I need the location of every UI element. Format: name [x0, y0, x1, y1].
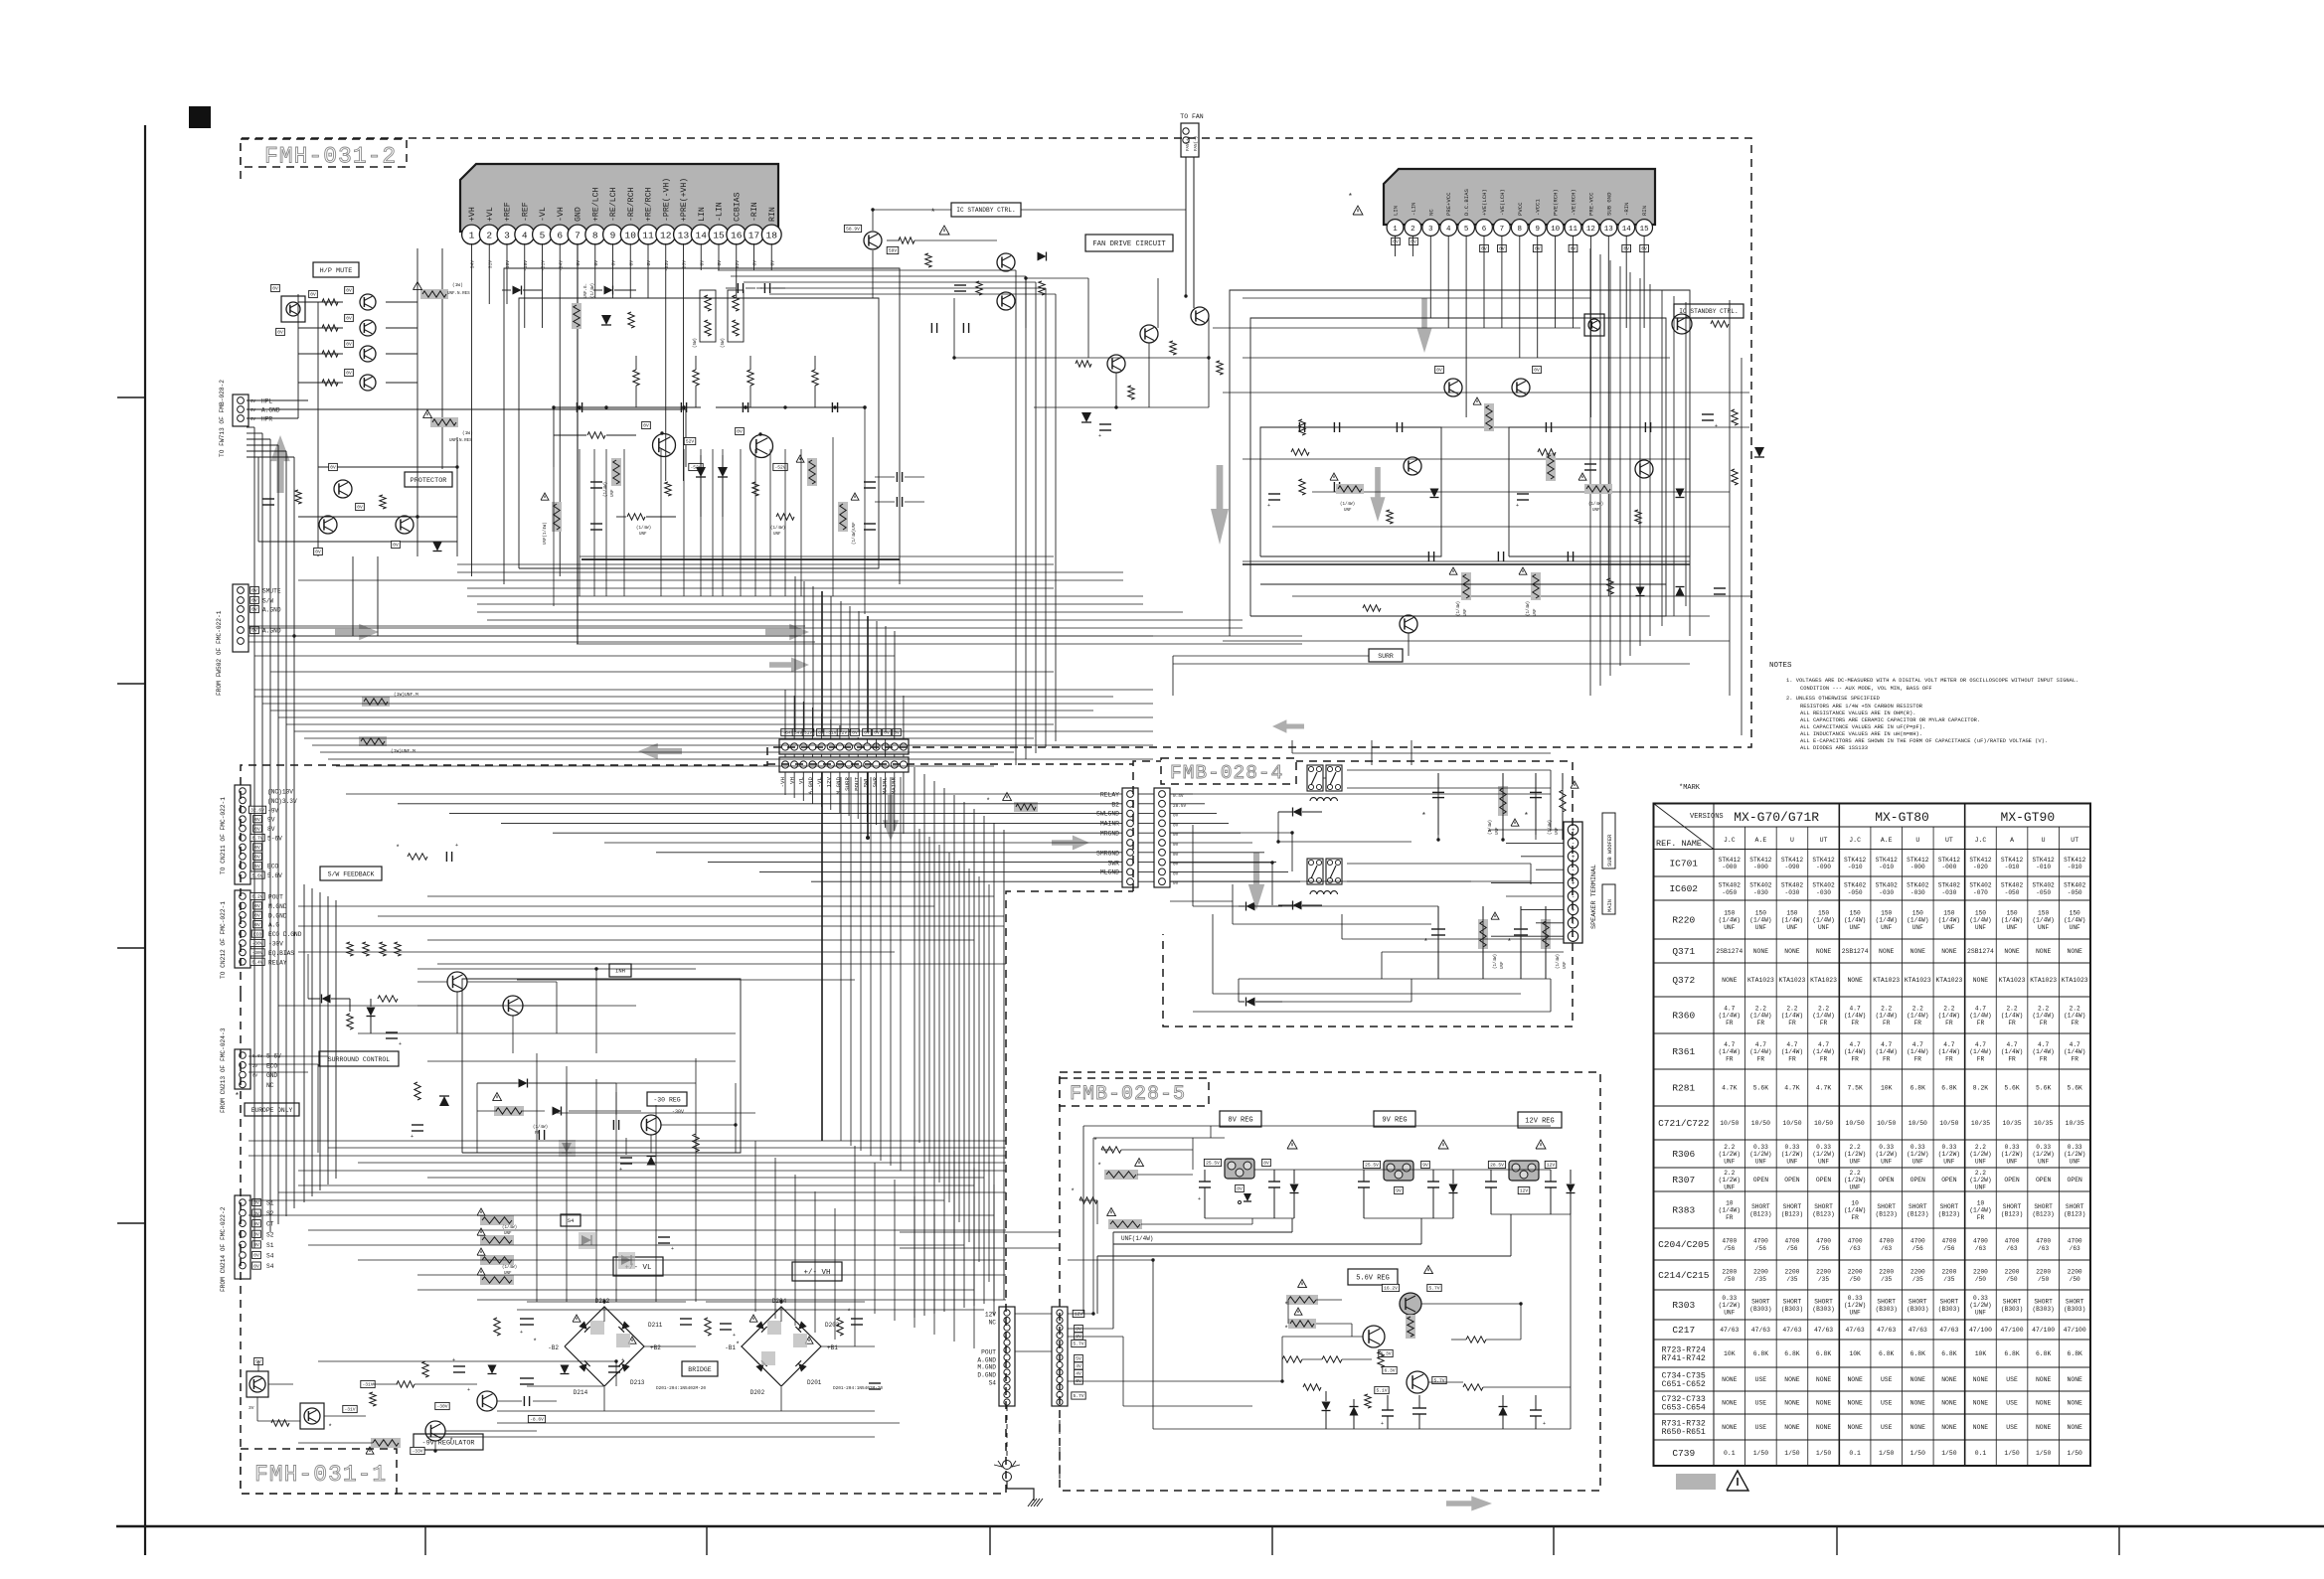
wire fan drop — [1185, 157, 1187, 296]
svg-text:OPEN: OPEN — [2004, 1177, 2020, 1184]
svg-text:-010: -010 — [1848, 864, 1863, 870]
svg-text:+: + — [621, 1357, 624, 1363]
svg-text:/50: /50 — [2070, 1276, 2080, 1283]
pin 2 (+VL) — [479, 225, 499, 244]
right sub-amp LCH loop — [1260, 427, 1441, 556]
svg-text:(1/4W): (1/4W) — [1781, 1048, 1803, 1055]
svg-text:UNF: UNF — [1975, 1309, 1986, 1316]
svg-text:SHORT: SHORT — [1909, 1203, 1927, 1210]
pin 12 (-PRE(-VH)) — [656, 225, 676, 244]
svg-text:2200: 2200 — [1722, 1269, 1737, 1276]
svg-text:OPEN: OPEN — [1753, 1177, 1769, 1184]
svg-text:UNF: UNF — [1912, 1158, 1923, 1165]
svg-text:D211: D211 — [648, 1322, 663, 1329]
svg-text:FR: FR — [2071, 1020, 2078, 1026]
mute transistors Q751-Q754 — [360, 294, 376, 310]
svg-text:UNF.G.: UNF.G. — [584, 283, 588, 298]
svg-text:S2: S2 — [266, 1231, 274, 1238]
svg-text:16V: 16V — [505, 260, 511, 269]
svg-text:9V: 9V — [1422, 1163, 1428, 1169]
svg-text:NONE: NONE — [1941, 1376, 1957, 1383]
svg-text:KTA1023: KTA1023 — [1747, 977, 1774, 984]
svg-text:S4: S4 — [989, 1380, 997, 1387]
svg-text:(B303): (B303) — [1907, 1306, 1928, 1313]
svg-text:STK412: STK412 — [1781, 857, 1804, 864]
svg-text:(NC)10V: (NC)10V — [267, 789, 293, 796]
caps around 12V REG — [1485, 1181, 1497, 1183]
long verticals: strip area to FMH-031-1 — [840, 777, 842, 1141]
svg-text:-030: -030 — [1785, 889, 1800, 896]
svg-text:4.7K: 4.7K — [1784, 1085, 1800, 1092]
svg-text:MX-G70/G71R: MX-G70/G71R — [1734, 810, 1819, 825]
svg-text:4700: 4700 — [2068, 1238, 2082, 1245]
svg-text:*: * — [1421, 812, 1426, 821]
FMH-031-1 lower verticals — [754, 1141, 756, 1312]
svg-text:1. VOLTAGES ARE DC-MEASURED WI: 1. VOLTAGES ARE DC-MEASURED WITH A DIGIT… — [1786, 678, 2078, 684]
svg-text:IC701: IC701 — [1669, 858, 1698, 868]
svg-text:S1: S1 — [266, 1242, 274, 1249]
svg-text:0.33: 0.33 — [1816, 1144, 1831, 1151]
svg-text:MAINR: MAINR — [1100, 821, 1119, 828]
svg-text:+RE/RCH: +RE/RCH — [644, 188, 654, 222]
svg-text:*: * — [1284, 1302, 1288, 1310]
svg-text:SHORT: SHORT — [1814, 1299, 1833, 1306]
svg-text:SHORT: SHORT — [1751, 1299, 1770, 1306]
svg-text:A.GND: A.GND — [261, 407, 280, 414]
svg-text:TO CN212 OF FMC-022-1: TO CN212 OF FMC-022-1 — [220, 901, 227, 979]
svg-text:HPR: HPR — [261, 416, 272, 423]
svg-text:ALL CAPACITORS ARE CERAMIC CAP: ALL CAPACITORS ARE CERAMIC CAPACITOR OR … — [1800, 717, 1980, 723]
eco filter caps — [347, 942, 353, 956]
svg-text:FR: FR — [1914, 1055, 1922, 1062]
svg-text:R306: R306 — [1672, 1149, 1695, 1160]
svg-text:USE: USE — [2006, 1400, 2018, 1407]
resistor (1W)UNF.M lower — [359, 736, 387, 746]
cap C (FMB-028-4 upper) — [1432, 791, 1444, 793]
IC602 hybrid block (15-pin header) — [1384, 169, 1655, 225]
8V REG box — [1220, 1111, 1261, 1127]
svg-text:0V: 0V — [1173, 881, 1179, 886]
svg-text:-16V: -16V — [523, 260, 529, 271]
svg-text:M.GND: M.GND — [268, 903, 287, 910]
svg-text:-010: -010 — [2005, 864, 2020, 870]
svg-text:10/50: 10/50 — [1939, 1120, 1958, 1127]
svg-text:-RE/LCH: -RE/LCH — [608, 188, 618, 222]
wire SURR route — [1173, 655, 1369, 657]
svg-text:(1/4W): (1/4W) — [533, 1125, 548, 1130]
svg-text:10K: 10K — [1849, 1350, 1861, 1357]
svg-text:(1/4W): (1/4W) — [1876, 917, 1898, 924]
svg-text:UNF: UNF — [1912, 924, 1923, 931]
gray resistor (FMB-028-4 lower) — [1478, 919, 1488, 949]
svg-text:*: * — [1093, 1138, 1097, 1146]
svg-text:C214/C215: C214/C215 — [1658, 1270, 1710, 1281]
optocoupler — [281, 296, 305, 322]
svg-text:/56: /56 — [1786, 1245, 1797, 1252]
svg-text:0V: 0V — [252, 1075, 258, 1079]
svg-text:(B123): (B123) — [1876, 1210, 1898, 1217]
5.6V REG box — [1348, 1269, 1398, 1285]
svg-text:UNF: UNF — [1975, 924, 1986, 931]
svg-text:(1/4W): (1/4W) — [1969, 1013, 1991, 1020]
svg-text:2.2: 2.2 — [1786, 1005, 1797, 1012]
svg-text:*: * — [736, 1342, 740, 1349]
svg-text:14: 14 — [696, 231, 708, 241]
svg-text:UNF: UNF — [1534, 608, 1538, 616]
svg-text:FR: FR — [1726, 1055, 1734, 1062]
svg-text:4700: 4700 — [1785, 1238, 1800, 1245]
svg-text:0.33: 0.33 — [1941, 1144, 1956, 1151]
svg-text:IC STANDBY CTRL.: IC STANDBY CTRL. — [956, 207, 1015, 214]
svg-text:(1/4W): (1/4W) — [2064, 1048, 2085, 1055]
12V REG box — [1518, 1112, 1562, 1128]
diodes FMB-028-4 left — [1246, 902, 1255, 911]
svg-text:0V: 0V — [254, 912, 260, 918]
S/W feedback resistor — [408, 854, 427, 860]
svg-text:10: 10 — [625, 231, 637, 241]
svg-text:(1/2W): (1/2W) — [1907, 1151, 1928, 1158]
svg-text:POUT: POUT — [981, 1349, 996, 1356]
pin 5 (D.C.BIAS) — [1458, 220, 1475, 237]
svg-text:ALL CAPACITANCE VALUES ARE IN: ALL CAPACITANCE VALUES ARE IN uF(P=pF). — [1800, 724, 1925, 730]
svg-text:6.8K: 6.8K — [1879, 1350, 1895, 1357]
svg-text:1/50: 1/50 — [1879, 1450, 1895, 1457]
svg-text:4.7: 4.7 — [1881, 1041, 1892, 1048]
wire bus: strip risers to amp — [794, 576, 796, 732]
svg-text:-000: -000 — [1910, 864, 1925, 870]
BRIDGE box — [682, 1361, 718, 1376]
IC701 aux resistor networks under pins 8-11 — [700, 290, 716, 342]
svg-text:-010: -010 — [2036, 864, 2051, 870]
svg-text:UNF: UNF — [1975, 1158, 1986, 1165]
svg-text:/50: /50 — [2006, 1276, 2017, 1283]
svg-text:0V: 0V — [254, 817, 260, 823]
diodes under pins 2-5 — [513, 286, 522, 295]
svg-text:(1/2W): (1/2W) — [1781, 1151, 1803, 1158]
caps near pins 14-18 — [737, 283, 739, 293]
svg-text:(1/2W): (1/2W) — [1719, 1177, 1741, 1184]
svg-text:NONE: NONE — [1973, 1400, 1989, 1407]
svg-text:SHORT: SHORT — [2034, 1203, 2053, 1210]
svg-text:USE: USE — [1881, 1376, 1893, 1383]
svg-text:0V: 0V — [1173, 833, 1179, 838]
wire bus: IC602 pin drops — [1395, 236, 1397, 256]
svg-text:STK402: STK402 — [1907, 882, 1929, 889]
svg-text:150: 150 — [1818, 909, 1829, 916]
9V REG box — [1374, 1111, 1415, 1127]
svg-text:FR: FR — [1883, 1055, 1891, 1062]
svg-text:NONE: NONE — [1816, 948, 1832, 955]
svg-text:12: 12 — [660, 231, 672, 241]
pin 11 (-VE(RCH)) — [1565, 220, 1581, 237]
svg-text:6.8K: 6.8K — [1941, 1350, 1957, 1357]
amp bus dots — [578, 405, 581, 408]
svg-text:5.1V: 5.1V — [1376, 1388, 1387, 1394]
svg-text:2.2: 2.2 — [1724, 1170, 1735, 1177]
cap2 (FMB-028-4 lower) — [1514, 928, 1528, 930]
wire FMB-028-4 bottom routes — [1193, 1011, 1551, 1013]
svg-text:-LIN: -LIN — [1410, 203, 1416, 216]
svg-text:/56: /56 — [1755, 1245, 1766, 1252]
svg-text:RIN: RIN — [1641, 206, 1648, 216]
svg-text:47/63: 47/63 — [1751, 1327, 1770, 1334]
svg-text:1/50: 1/50 — [2068, 1450, 2083, 1457]
svg-text:5: 5 — [1464, 226, 1469, 234]
surround control area wires — [307, 954, 309, 999]
svg-text:1: 1 — [1393, 226, 1398, 234]
svg-text:UNF: UNF — [1464, 608, 1468, 616]
svg-text:0V: 0V — [250, 400, 256, 404]
svg-text:UNF: UNF — [1818, 924, 1829, 931]
svg-text:0V: 0V — [611, 260, 617, 266]
svg-text:SURR: SURR — [844, 776, 851, 790]
svg-text:47/63: 47/63 — [1720, 1327, 1739, 1334]
svg-text:SHORT: SHORT — [1877, 1203, 1896, 1210]
svg-text:2.2: 2.2 — [1881, 1005, 1892, 1012]
svg-text:2.2: 2.2 — [1912, 1005, 1923, 1012]
svg-text:(1/2W): (1/2W) — [1844, 1151, 1866, 1158]
svg-text:-RE/RCH: -RE/RCH — [626, 188, 636, 222]
amp diodes — [696, 467, 706, 477]
svg-text:R383: R383 — [1672, 1205, 1695, 1216]
svg-text:UNF: UNF — [1786, 1158, 1797, 1165]
svg-text:SURROUND CONTROL: SURROUND CONTROL — [328, 1056, 391, 1063]
svg-text:+: + — [1098, 433, 1101, 439]
svg-text:(1/2W): (1/2W) — [1844, 1177, 1866, 1184]
svg-text:-050: -050 — [1722, 889, 1737, 896]
svg-text:6.8K: 6.8K — [1816, 1350, 1832, 1357]
svg-text:(1/4W): (1/4W) — [1907, 1048, 1928, 1055]
left vertical feeder bus — [253, 427, 255, 1248]
svg-text:UNF: UNF — [1592, 509, 1600, 513]
svg-text:6: 6 — [1482, 226, 1487, 234]
svg-text:KTA1023: KTA1023 — [1999, 977, 2026, 984]
svg-text:4V: 4V — [1076, 1371, 1081, 1377]
svg-text:(1/4W): (1/4W) — [1719, 1207, 1741, 1214]
svg-text:5V: 5V — [254, 864, 260, 869]
svg-text:8V: 8V — [1263, 1161, 1269, 1167]
svg-text:Q372: Q372 — [1672, 975, 1695, 986]
svg-text:-9V REGULATOR: -9V REGULATOR — [421, 1439, 474, 1447]
link: strip to FMB-028-5 connector — [918, 829, 920, 1143]
speaker terminal connector — [1564, 822, 1582, 943]
svg-text:(1/4W): (1/4W) — [2032, 1048, 2054, 1055]
svg-text:NONE: NONE — [2068, 1400, 2083, 1407]
svg-text:(1W): (1W) — [452, 282, 463, 288]
svg-text:+VH: +VH — [468, 207, 477, 222]
svg-text:D.GND: D.GND — [977, 1372, 996, 1379]
svg-text:-RIN: -RIN — [1623, 203, 1630, 216]
svg-text:NONE: NONE — [1722, 1424, 1738, 1431]
-9V REGULATOR box — [414, 1434, 483, 1450]
svg-text:SUB WOOFER: SUB WOOFER — [1607, 834, 1613, 867]
wire bus: CN601 to relays/speaker — [1170, 793, 1193, 795]
svg-text:(1/2W): (1/2W) — [1749, 1151, 1771, 1158]
svg-text:IC602: IC602 — [1669, 883, 1698, 894]
svg-text:0.4V: 0.4V — [251, 959, 262, 965]
svg-text:UNF: UNF — [1850, 924, 1861, 931]
svg-text:FR: FR — [1851, 1020, 1859, 1026]
svg-text:-030: -030 — [1879, 889, 1894, 896]
svg-text:Q371: Q371 — [1672, 946, 1695, 957]
svg-text:2200: 2200 — [2005, 1269, 2020, 1276]
svg-text:+: + — [1572, 880, 1576, 887]
svg-text:5.7V: 5.7V — [1428, 1286, 1439, 1292]
svg-text:A.E: A.E — [1755, 837, 1767, 844]
pin 9 (-RE/LCH) — [603, 225, 623, 244]
svg-text:-: - — [1572, 867, 1576, 873]
svg-text:USE: USE — [2006, 1424, 2018, 1431]
FMB-028-5 wires — [1068, 1313, 1093, 1315]
svg-text:9V: 9V — [1396, 1188, 1402, 1194]
photocoupler right — [1584, 314, 1604, 336]
svg-text:PRE+VCC: PRE+VCC — [1445, 192, 1452, 216]
svg-text:150: 150 — [2070, 909, 2080, 916]
svg-text:16: 16 — [731, 231, 743, 241]
svg-text:C739: C739 — [1672, 1448, 1695, 1459]
svg-text:SHORT: SHORT — [2003, 1203, 2022, 1210]
svg-text:STK412: STK412 — [2001, 857, 2024, 864]
svg-text:UNF: UNF — [1496, 827, 1500, 835]
SURR box — [1369, 649, 1403, 662]
connector to FW713 (HPL/A.GND/HPR) — [233, 395, 249, 426]
svg-text:C204/C205: C204/C205 — [1658, 1239, 1710, 1250]
svg-text:(1W): (1W) — [462, 430, 473, 436]
svg-text:(1/2W): (1/2W) — [1812, 1151, 1834, 1158]
svg-text:(B123): (B123) — [1938, 1210, 1960, 1217]
svg-text:EQ.BIAS: EQ.BIAS — [268, 950, 294, 957]
bridge rectifier D211-D214 — [565, 1307, 644, 1386]
svg-text:SHORT: SHORT — [1783, 1203, 1802, 1210]
svg-text:10/50: 10/50 — [1720, 1120, 1739, 1127]
svg-text:9V: 9V — [267, 817, 275, 824]
wire bus: right risers to FMB-028-4 — [913, 767, 915, 1318]
svg-text:6.8K: 6.8K — [1941, 1085, 1957, 1092]
svg-text:BRIDGE: BRIDGE — [688, 1366, 712, 1373]
svg-text:-31V: -31V — [541, 260, 547, 271]
pin 8 (PVCC) — [1511, 220, 1528, 237]
svg-text:(1/4W): (1/4W) — [2001, 1013, 2023, 1020]
svg-text:6: 6 — [557, 231, 563, 241]
svg-text:*: * — [1348, 193, 1353, 202]
svg-text:8V: 8V — [1237, 1186, 1243, 1192]
svg-text:(1/4W): (1/4W) — [2001, 917, 2023, 924]
svg-text:0.2V: 0.2V — [251, 894, 262, 900]
-30 REG box — [647, 1092, 687, 1106]
svg-text:STK402: STK402 — [1844, 882, 1867, 889]
svg-text:4: 4 — [1446, 226, 1451, 234]
svg-text:0V: 0V — [628, 260, 634, 266]
-30V reg parts — [519, 1079, 528, 1088]
svg-text:D214: D214 — [574, 1389, 588, 1396]
svg-text:FR: FR — [1977, 1055, 1985, 1062]
wire bus: horizontal into CN601 — [346, 793, 1122, 795]
svg-text:NC: NC — [1427, 209, 1434, 216]
svg-text:(1/2W): (1/2W) — [1969, 1177, 1991, 1184]
svg-text:/63: /63 — [1975, 1245, 1986, 1252]
svg-text:2.2: 2.2 — [1818, 1005, 1829, 1012]
relay RY1 — [1307, 765, 1323, 791]
svg-text:+B1: +B1 — [827, 1344, 838, 1351]
svg-text:UT: UT — [2071, 837, 2078, 844]
svg-text:-52V: -52V — [774, 465, 785, 471]
svg-text:S4: S4 — [568, 1217, 575, 1224]
parts version table — [1654, 804, 2091, 1467]
svg-text:+: + — [1198, 1196, 1201, 1202]
svg-text:150: 150 — [1912, 909, 1923, 916]
svg-text:0V: 0V — [737, 429, 743, 435]
svg-text:-: - — [1572, 920, 1576, 927]
svg-text:UNF: UNF — [1724, 1158, 1735, 1165]
svg-text:SHORT: SHORT — [1783, 1299, 1802, 1306]
svg-text:FROM FW502 OF FMC-022-1: FROM FW502 OF FMC-022-1 — [216, 610, 223, 696]
svg-text:U: U — [1790, 837, 1794, 844]
svg-text:SHORT: SHORT — [2066, 1203, 2084, 1210]
svg-text:UNF: UNF — [1850, 1158, 1861, 1165]
svg-text:-30V: -30V — [436, 1404, 447, 1410]
svg-text:-: - — [1572, 933, 1576, 940]
svg-text:R220: R220 — [1672, 915, 1695, 926]
trim mark: black square — [189, 106, 211, 128]
svg-text:0V: 0V — [346, 316, 352, 322]
pin 10 (-RE/RCH) — [620, 225, 640, 244]
svg-text:0.4V: 0.4V — [1173, 794, 1184, 799]
svg-text:/63: /63 — [2038, 1245, 2049, 1252]
svg-text:150: 150 — [1975, 909, 1986, 916]
svg-text:(1/4W): (1/4W) — [1844, 1013, 1866, 1020]
svg-text:MLGND: MLGND — [1100, 869, 1119, 876]
svg-text:NONE: NONE — [1816, 1376, 1832, 1383]
svg-text:-31V: -31V — [344, 1407, 355, 1413]
svg-text:10K: 10K — [1724, 1350, 1736, 1357]
svg-text:58.9V: 58.9V — [846, 227, 860, 233]
svg-text:FR: FR — [1883, 1020, 1891, 1026]
svg-text:10K: 10K — [1881, 1085, 1893, 1092]
svg-text:2200: 2200 — [1785, 1269, 1800, 1276]
svg-text:(1/4W): (1/4W) — [1969, 917, 1991, 924]
svg-text:FR: FR — [2040, 1020, 2048, 1026]
svg-text:4.7K: 4.7K — [1816, 1085, 1832, 1092]
svg-text:NONE: NONE — [1753, 948, 1769, 955]
svg-text:UNF: UNF — [1943, 924, 1954, 931]
svg-text:-RIN: -RIN — [750, 202, 759, 222]
svg-text:-000: -000 — [1722, 864, 1737, 870]
svg-text:CONDITION --- AUX MODE, VOL M: CONDITION --- AUX MODE, VOL MIN, BASS OF… — [1800, 686, 1932, 692]
signal flow arrows (gray) — [270, 435, 290, 493]
svg-text:-LIN: -LIN — [716, 202, 725, 222]
svg-text:12V: 12V — [1547, 1163, 1556, 1169]
svg-text:*MARK: *MARK — [1679, 784, 1701, 792]
svg-text:(1/4W): (1/4W) — [2032, 1013, 2054, 1020]
svg-text:(B123): (B123) — [2032, 1210, 2054, 1217]
svg-text:0V: 0V — [769, 260, 775, 266]
wires below bridges — [497, 1422, 900, 1424]
svg-text:NONE: NONE — [1847, 1400, 1863, 1407]
svg-text:2200: 2200 — [1816, 1269, 1831, 1276]
svg-text:/50: /50 — [2038, 1276, 2049, 1283]
svg-text:STK412: STK412 — [1876, 857, 1899, 864]
svg-text:R360: R360 — [1672, 1011, 1695, 1022]
svg-text:KTA1023: KTA1023 — [1905, 977, 1931, 984]
IC STANDBY CTRL box (left) — [951, 203, 1021, 217]
svg-text:NONE: NONE — [1910, 948, 1926, 955]
right sub-amp RCH loop — [1509, 427, 1690, 556]
svg-text:(1/4W): (1/4W) — [1781, 1013, 1803, 1020]
svg-text:NONE: NONE — [2036, 1424, 2052, 1431]
svg-text:STK402: STK402 — [2032, 882, 2055, 889]
svg-text:4V: 4V — [1076, 1363, 1081, 1369]
svg-text:-: - — [1572, 840, 1576, 847]
